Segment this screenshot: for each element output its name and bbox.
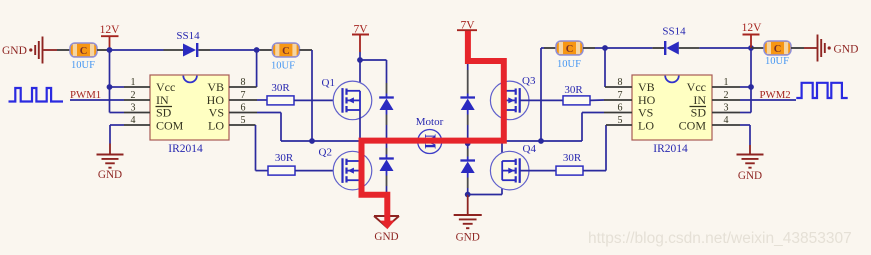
wire Q1 drain (359, 60, 361, 91)
wire R3 to HO (590, 99, 604, 101)
node VB-left junction (254, 47, 260, 53)
transistor Q1 symbol (343, 88, 361, 113)
U2 pin stubs left (605, 86, 632, 88)
wire VS to switch node (257, 112, 281, 114)
ground IC1 COM (97, 154, 124, 156)
wire 12V rail to D5 anode (110, 49, 164, 51)
wire switch rail left (312, 140, 360, 142)
svg-text:SS14: SS14 (176, 30, 200, 42)
wire GND port to C1 (44, 49, 58, 51)
transistor Q4 symbol (502, 158, 520, 183)
svg-text:8: 8 (241, 77, 246, 88)
wire bootstrap riser right (540, 48, 542, 141)
wire Q3 gate to R3 (520, 99, 563, 101)
svg-text:Vcc: Vcc (156, 80, 175, 94)
wire C1 to 12V node (97, 49, 110, 51)
svg-text:Q4: Q4 (523, 143, 537, 155)
wire Q3 drain (501, 61, 503, 91)
wire pin4 COM to GND right (740, 124, 750, 126)
svg-text:10UF: 10UF (557, 59, 581, 70)
capacitor C3 body (556, 41, 583, 55)
svg-text:5: 5 (241, 115, 246, 126)
svg-text:8: 8 (618, 77, 623, 88)
wire VS right (581, 113, 583, 142)
svg-text:7: 7 (618, 90, 623, 101)
signal PWM2 square wave (796, 83, 847, 98)
wire R1 to Q1 gate (294, 99, 343, 101)
svg-text:12V: 12V (100, 24, 121, 36)
wire PWM1 to pin2 (70, 99, 124, 101)
transistor Q3 symbol (502, 88, 520, 113)
svg-text:5: 5 (618, 115, 623, 126)
svg-text:30R: 30R (275, 152, 294, 164)
ground signal GND (right bridge) (467, 195, 469, 215)
svg-text:Q3: Q3 (522, 75, 536, 87)
wire Q4 drain (501, 141, 503, 161)
power port GND (right) (804, 47, 818, 49)
highlighted current path 7V to GND (362, 31, 504, 221)
diode D2 (379, 157, 394, 159)
capacitor C1 body (70, 43, 97, 57)
svg-text:C: C (566, 44, 574, 55)
wire Q2 source (359, 180, 361, 195)
node pin1 Vcc junction (left) (107, 84, 113, 90)
wire Vcc-SD vertical (left) (109, 50, 111, 113)
resistor R1 30R (267, 96, 294, 105)
node pin1 Vcc junction (right) (748, 84, 754, 90)
svg-text:GND: GND (834, 44, 859, 56)
transistor Q3 body circle (490, 81, 529, 120)
transistor Q2 symbol (343, 158, 361, 183)
svg-text:SD: SD (691, 106, 707, 120)
wire bottom rail right (468, 194, 502, 196)
diode D6 SS14 (right) (666, 42, 678, 55)
svg-text:VS: VS (209, 106, 224, 120)
wire R4 to LO (583, 170, 606, 172)
svg-text:GND: GND (456, 232, 480, 244)
node D3-D4 rail junction (465, 140, 471, 146)
svg-text:3: 3 (724, 103, 729, 114)
svg-text:30R: 30R (271, 82, 290, 94)
wire pin4 COM to GND (110, 124, 124, 126)
node bootstrap-right junction (538, 138, 544, 144)
svg-text:LO: LO (638, 119, 654, 133)
node VB-right junction (602, 45, 608, 51)
wire D3 branch upper (467, 61, 469, 70)
svg-text:https://blog.csdn.net/weixin_4: https://blog.csdn.net/weixin_43853307 (588, 230, 852, 247)
svg-text:VS: VS (638, 106, 653, 120)
diode D3 (460, 96, 475, 98)
wire 7V node to D1 (360, 59, 387, 61)
wire LO to R2 (255, 125, 257, 171)
svg-text:7: 7 (241, 90, 246, 101)
svg-text:30R: 30R (564, 84, 583, 96)
wire VB node to C2 (257, 49, 260, 51)
node 12V-left junction (107, 47, 113, 53)
wire pin8 VB riser right (604, 48, 606, 87)
diode D4 (460, 159, 475, 161)
ground power GND arrow (left bridge) (386, 195, 388, 216)
svg-text:COM: COM (679, 119, 707, 133)
svg-text:Q2: Q2 (319, 147, 332, 159)
svg-text:IR2014: IR2014 (653, 143, 688, 155)
svg-text:C: C (282, 46, 290, 57)
wire D2 branch lower (386, 141, 388, 148)
ground IC2 COM (737, 154, 764, 156)
U2 pin stubs right (712, 86, 740, 88)
motor M1 (418, 130, 442, 154)
svg-text:3: 3 (131, 103, 136, 114)
wire 12V node to C4 (751, 47, 764, 49)
transistor Q1 body circle (333, 81, 372, 120)
svg-text:10UF: 10UF (765, 56, 789, 67)
svg-text:GND: GND (738, 170, 762, 182)
node 12V-right junction (748, 45, 754, 51)
op-amp U1 IR2014 body (150, 75, 229, 140)
wire D5 cathode to VB node (199, 49, 211, 51)
resistor R4 30R (556, 166, 583, 175)
wire R2 to Q2 gate (295, 170, 343, 172)
wire pin8 VB riser (256, 50, 258, 87)
svg-text:IR2014: IR2014 (168, 143, 203, 155)
U1 pin stubs right (229, 86, 257, 88)
svg-text:6: 6 (618, 103, 623, 114)
svg-text:6: 6 (241, 103, 246, 114)
transistor Q4 body circle (490, 151, 529, 190)
svg-text:VB: VB (207, 80, 224, 94)
resistor R3 30R (563, 96, 590, 105)
svg-text:4: 4 (724, 115, 729, 126)
signal PWM1 square wave (9, 88, 64, 102)
U1 pin stubs left (124, 86, 150, 88)
svg-text:12V: 12V (742, 22, 763, 34)
svg-text:Vcc: Vcc (687, 80, 706, 94)
diode D5 SS14 (left) (183, 44, 196, 57)
svg-text:1: 1 (131, 77, 136, 88)
svg-text:COM: COM (156, 119, 184, 133)
svg-text:GND: GND (2, 45, 27, 57)
wire VB node to D6 (605, 47, 652, 49)
wire Q2 drain (359, 141, 361, 161)
wire Q3 source (501, 110, 503, 141)
svg-text:4: 4 (131, 115, 136, 126)
svg-text:PWM2: PWM2 (760, 89, 791, 101)
wire D1 branch upper (386, 60, 388, 83)
svg-text:1: 1 (724, 77, 729, 88)
wire Vcc-SD vertical (right) (750, 48, 752, 113)
wire switch rail right (502, 140, 582, 142)
svg-text:10UF: 10UF (271, 61, 295, 72)
svg-text:10UF: 10UF (71, 60, 95, 71)
wire D4 branch lower (467, 141, 469, 149)
wire 7V right node (467, 32, 469, 64)
svg-text:VB: VB (638, 80, 655, 94)
svg-text:Q1: Q1 (322, 77, 335, 89)
wire Q4 gate to R4 (520, 170, 556, 172)
wire Q1 source (359, 110, 361, 141)
capacitor C4 body (764, 41, 791, 55)
resistor R2 30R (268, 166, 295, 175)
node VS-left junction (309, 138, 315, 144)
svg-text:30R: 30R (563, 152, 582, 164)
wire C2 to VS drop (299, 49, 312, 51)
wire PWM2 to pin2 (740, 99, 796, 101)
capacitor C2 body (272, 43, 299, 57)
wire D6 to 12V node right (679, 47, 700, 49)
op-amp U2 IR2014 body (632, 75, 712, 140)
node bottom-right junction (465, 192, 471, 198)
diode D1 (379, 96, 394, 98)
svg-text:GND: GND (98, 169, 122, 181)
svg-text:C: C (80, 46, 88, 57)
svg-text:2: 2 (724, 90, 729, 101)
svg-text:SS14: SS14 (662, 26, 686, 38)
node 7V-left junction (357, 57, 363, 63)
svg-text:SD: SD (156, 106, 172, 120)
transistor Q2 body circle (333, 151, 372, 190)
wire HO to R1 (257, 99, 267, 101)
svg-text:C: C (774, 44, 782, 55)
svg-text:2: 2 (131, 90, 136, 101)
svg-text:LO: LO (208, 119, 224, 133)
svg-text:Motor: Motor (416, 116, 444, 128)
wire 7V to Q1 drain node (359, 52, 361, 60)
current path arrowhead (380, 221, 395, 230)
svg-text:GND: GND (374, 231, 398, 243)
